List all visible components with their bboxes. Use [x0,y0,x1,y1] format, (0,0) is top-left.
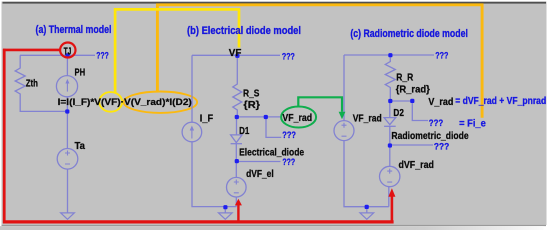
svg-text:{R_rad}: {R_rad} [396,84,430,95]
svg-text:TJ: TJ [64,46,72,57]
svg-text:???: ??? [435,50,448,60]
svg-text:PH: PH [75,68,86,79]
svg-text:???: ??? [282,130,296,140]
svg-text:Ta: Ta [75,141,86,152]
svg-text:???: ??? [282,51,295,61]
svg-text:R_R: R_R [396,73,414,84]
svg-text:VF: VF [229,48,242,59]
svg-text:I=I(I_F)*V(VF)·V(V_rad)*I(D2): I=I(I_F)*V(VF)·V(V_rad)*I(D2) [58,97,192,108]
svg-text:(a) Thermal model: (a) Thermal model [36,24,112,36]
svg-text:dVF_rad: dVF_rad [399,160,434,171]
svg-text:VF_rad: VF_rad [282,113,312,124]
svg-text:= dVF_rad + VF_pnrad: = dVF_rad + VF_pnrad [455,96,546,107]
svg-text:= Fi_e: = Fi_e [459,118,486,129]
svg-text:D2: D2 [393,108,404,119]
svg-text:I_F: I_F [200,113,213,124]
svg-text:dVF_el: dVF_el [246,169,274,180]
svg-text:R_S: R_S [243,89,260,100]
svg-text:???: ??? [96,50,109,60]
svg-text:{R}: {R} [243,100,260,111]
svg-text:D1: D1 [239,126,250,137]
svg-text:(c) Radiometric diode model: (c) Radiometric diode model [350,28,468,40]
svg-text:VF_rad: VF_rad [353,114,382,125]
svg-text:V_rad: V_rad [428,97,453,108]
svg-text:???: ??? [434,141,450,151]
svg-text:Zth: Zth [26,78,38,89]
svg-text:???: ??? [429,118,444,128]
svg-text:Radiometric_diode: Radiometric_diode [391,131,469,142]
svg-text:(b) Electrical diode model: (b) Electrical diode model [187,25,301,37]
svg-text:???: ??? [282,157,295,167]
